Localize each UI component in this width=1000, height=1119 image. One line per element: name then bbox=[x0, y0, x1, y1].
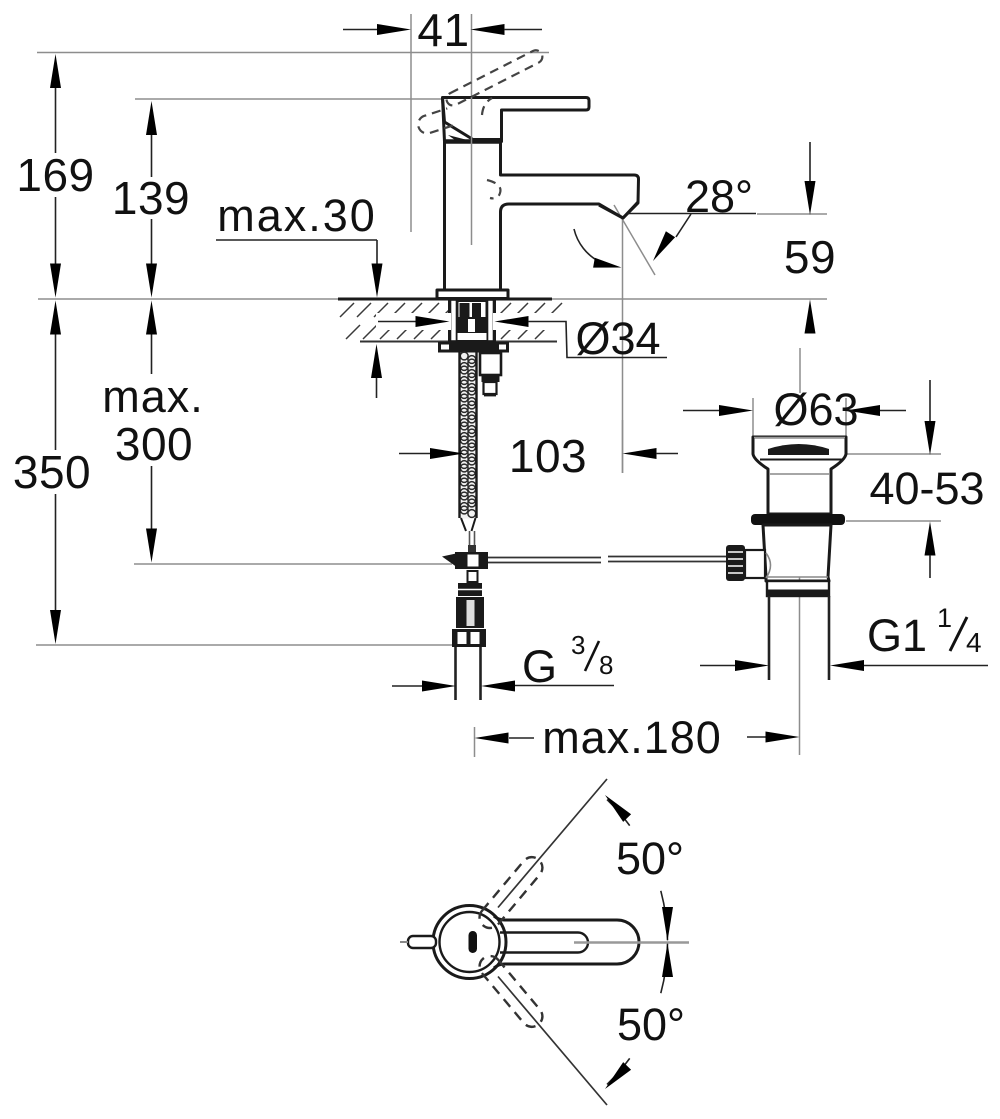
drain plug cap bbox=[768, 444, 829, 455]
drain flange lines bbox=[754, 437, 845, 439]
max180 left extension x=474.5 bbox=[474, 727, 476, 757]
svg-text:50°: 50° bbox=[616, 833, 684, 884]
dim oe34 bbox=[378, 321, 416, 323]
dim max300 bbox=[151, 334, 153, 374]
upper 50 arc segment a bbox=[607, 800, 630, 826]
oe63 extension right bbox=[845, 398, 847, 452]
base plate bbox=[437, 290, 508, 299]
faucet body and spout outline bbox=[445, 142, 639, 291]
topview center tick bbox=[469, 931, 478, 953]
supply pipe walls bbox=[456, 647, 481, 700]
clevis joint bbox=[442, 545, 488, 569]
dashed pivot arc upper bbox=[482, 98, 492, 115]
svg-text:G1: G1 bbox=[867, 610, 927, 661]
pop-up rod upper bbox=[470, 531, 475, 552]
svg-text:Ø63: Ø63 bbox=[773, 384, 858, 435]
dim 139 bbox=[151, 135, 153, 177]
tailpipe walls bbox=[769, 596, 829, 680]
handle lever bar bbox=[443, 98, 590, 142]
dashed lever +50 bbox=[475, 853, 546, 932]
lower arc arrow at horizontal bbox=[662, 943, 673, 977]
dim max180 bbox=[475, 733, 509, 744]
svg-text:50°: 50° bbox=[617, 999, 685, 1050]
svg-text:8: 8 bbox=[599, 650, 613, 680]
thin 50deg line lower bbox=[498, 977, 607, 1106]
svg-text:Ø34: Ø34 bbox=[575, 313, 660, 364]
dim 59 bbox=[809, 142, 811, 181]
dim 350 bbox=[55, 334, 57, 450]
handle wedge base bbox=[443, 98, 502, 140]
upper arc arrow at horizontal bbox=[662, 907, 673, 941]
oe63 extension left bbox=[752, 398, 754, 452]
dashed raised lever bbox=[444, 48, 544, 108]
svg-text:1: 1 bbox=[937, 603, 952, 633]
rod lower stub bbox=[468, 571, 478, 582]
counter hatching bbox=[340, 303, 562, 339]
svg-text:40-53: 40-53 bbox=[869, 463, 984, 514]
seal ring band bbox=[751, 514, 845, 525]
svg-text:169: 169 bbox=[16, 149, 94, 201]
extension line: max height y=52 bbox=[37, 52, 549, 54]
350 lower extension y=645 bbox=[36, 644, 481, 646]
28deg swing arc bbox=[574, 229, 600, 262]
topview lever outline bbox=[494, 916, 639, 968]
103 right extension bbox=[622, 420, 624, 473]
thin 50deg line upper bbox=[498, 779, 607, 908]
dim G38 bbox=[392, 685, 423, 687]
ball joint arc bbox=[766, 553, 771, 578]
collar bbox=[458, 583, 482, 596]
28 deg diagonal line bbox=[614, 205, 655, 275]
topview knob inner circle bbox=[440, 912, 500, 972]
topview lever slot bbox=[500, 933, 588, 953]
topview knob outer circle bbox=[433, 906, 506, 979]
second hose stub bbox=[480, 353, 501, 396]
counter underside line bbox=[360, 341, 557, 343]
extension line: handle top y=99 bbox=[135, 98, 443, 100]
topview axis gray line bbox=[574, 941, 689, 944]
drain axis upper line bbox=[799, 348, 801, 393]
dim 41 bbox=[343, 29, 378, 31]
aerator vertical reference x=622.5 bbox=[622, 218, 624, 473]
hose taper to rod bbox=[461, 518, 476, 531]
40-53 lower extension bbox=[846, 520, 941, 522]
lower 50 arc segment a bbox=[661, 944, 668, 994]
upper 50 arc segment b bbox=[661, 891, 668, 941]
G3/8 nut bbox=[452, 629, 486, 647]
dashed lowered lever rear bbox=[416, 108, 453, 135]
svg-text:max.: max. bbox=[102, 371, 204, 422]
mounting shank cluster bbox=[449, 299, 495, 342]
drain tail centerline bbox=[799, 577, 801, 755]
spout aerator notch bbox=[599, 202, 638, 218]
dim oe34 halo bbox=[376, 313, 451, 330]
drain flange body bbox=[753, 437, 846, 514]
cartridge seam bbox=[448, 135, 473, 142]
horizontal rod right segment bbox=[608, 557, 726, 562]
dim 40-53 bbox=[929, 380, 931, 421]
knurled knob bbox=[726, 545, 765, 581]
countertop surface line bbox=[38, 298, 827, 300]
svg-text:4: 4 bbox=[966, 627, 982, 658]
dim 169 bbox=[55, 88, 57, 153]
dim max30 leader bbox=[216, 239, 377, 241]
lower 50 arc segment b bbox=[607, 1058, 630, 1084]
svg-text:3: 3 bbox=[571, 630, 585, 660]
dim 103 bbox=[399, 453, 431, 455]
svg-text:28°: 28° bbox=[685, 171, 753, 222]
dashed pivot arc lower bbox=[487, 180, 500, 198]
40-53 upper extension bbox=[847, 453, 941, 455]
svg-text:max.30: max.30 bbox=[217, 190, 377, 241]
horizontal rod left segment bbox=[488, 558, 601, 563]
dim oe63 bbox=[683, 410, 720, 412]
topview pin bbox=[400, 936, 436, 948]
svg-text:300: 300 bbox=[115, 418, 193, 470]
connector nut bbox=[456, 597, 484, 628]
lower arc arrow at 50 line bbox=[605, 1062, 631, 1089]
dashed lever -50 bbox=[475, 952, 546, 1031]
drain bottom rim bbox=[767, 581, 829, 596]
aerator level extension y=214 bbox=[757, 213, 827, 215]
28deg underline and leader bbox=[627, 213, 756, 215]
upper arc arrow at 50 line bbox=[605, 795, 631, 822]
braided flex hose bbox=[459, 352, 477, 518]
dim G114 bbox=[700, 665, 736, 667]
svg-text:max.180: max.180 bbox=[542, 712, 722, 763]
drain lower body bbox=[763, 525, 831, 581]
svg-text:G: G bbox=[522, 641, 557, 692]
locknut bbox=[438, 342, 509, 353]
faucet axis over body bbox=[471, 97, 473, 245]
body top seam bbox=[444, 139, 501, 144]
extension line: 41-dim left x=411 bbox=[410, 14, 412, 232]
svg-text:59: 59 bbox=[784, 231, 836, 283]
svg-text:103: 103 bbox=[509, 430, 587, 482]
svg-text:350: 350 bbox=[13, 446, 91, 498]
svg-text:139: 139 bbox=[112, 172, 190, 224]
counter section top line bbox=[338, 298, 552, 301]
max300 lower extension y=564 bbox=[134, 563, 452, 565]
svg-text:41: 41 bbox=[417, 4, 469, 56]
faucet axis line x=471.5 bbox=[471, 14, 473, 97]
